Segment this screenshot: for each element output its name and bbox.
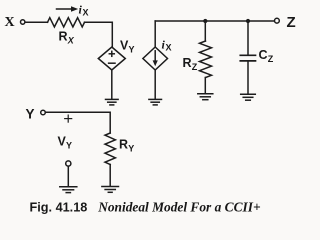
ground (under CZ) bbox=[241, 94, 256, 100]
dependent current source iX (diamond) bbox=[143, 47, 168, 70]
wire top bus to iX source bbox=[154, 21, 156, 47]
label iX (source) bbox=[162, 38, 172, 53]
ground (under VY terminal) bbox=[60, 187, 77, 193]
svg-text:C: C bbox=[259, 48, 268, 62]
svg-text:Z: Z bbox=[268, 54, 274, 64]
label VY (port voltage) bbox=[58, 135, 73, 151]
resistor RX bbox=[48, 18, 85, 27]
wire bus to RZ bbox=[204, 21, 206, 41]
wire bus to CZ bbox=[247, 21, 249, 55]
current label iX (top) bbox=[79, 3, 89, 18]
svg-text:R: R bbox=[183, 56, 192, 70]
junction node at CZ bbox=[246, 19, 250, 23]
ground (under RY) bbox=[102, 187, 119, 193]
wire RY to ground bbox=[109, 165, 111, 187]
plus sign (VY polarity) bbox=[65, 115, 72, 122]
svg-text:X: X bbox=[67, 36, 75, 46]
capacitor CZ bbox=[240, 55, 255, 61]
label CZ bbox=[259, 48, 274, 64]
svg-text:X: X bbox=[83, 8, 89, 18]
svg-text:X: X bbox=[166, 43, 172, 53]
svg-text:Y: Y bbox=[128, 144, 134, 154]
label VY (source) bbox=[120, 39, 135, 55]
svg-text:Z: Z bbox=[192, 62, 198, 72]
dependent source VY (diamond) bbox=[98, 47, 125, 70]
wire VY terminal to ground bbox=[67, 166, 69, 186]
svg-text:R: R bbox=[119, 138, 128, 152]
node X terminal circle bbox=[21, 20, 25, 24]
svg-text:Y: Y bbox=[66, 141, 72, 151]
current arrow iX above RX bbox=[57, 6, 79, 12]
ground (under iX) bbox=[149, 99, 162, 105]
wire top bus (iX to Z) bbox=[155, 20, 274, 22]
label RX bbox=[59, 30, 75, 46]
svg-text:R: R bbox=[59, 30, 68, 44]
wire RZ to ground bbox=[204, 78, 206, 94]
junction node at RZ bbox=[203, 19, 207, 23]
svg-text:Fig. 41.18: Fig. 41.18 bbox=[30, 201, 88, 215]
node VY minus terminal circle bbox=[66, 161, 71, 166]
node Z terminal circle bbox=[275, 18, 280, 23]
svg-text:Nonideal Model For a CCII+: Nonideal Model For a CCII+ bbox=[97, 200, 261, 215]
node Y terminal circle bbox=[41, 110, 46, 115]
label RY bbox=[119, 138, 134, 154]
wire X to RX bbox=[25, 21, 47, 23]
wire CZ to ground bbox=[247, 62, 249, 94]
svg-text:Y: Y bbox=[26, 107, 35, 122]
svg-text:Z: Z bbox=[287, 14, 296, 31]
ground (under VY) bbox=[106, 99, 119, 105]
ground (under RZ) bbox=[198, 94, 213, 100]
label RZ bbox=[183, 56, 198, 72]
wire iX to ground bbox=[154, 70, 156, 99]
svg-text:X: X bbox=[5, 15, 15, 30]
svg-text:Y: Y bbox=[129, 45, 135, 55]
resistor RY bbox=[105, 133, 115, 165]
wire Y to RY corner bbox=[46, 112, 111, 133]
wire VY to ground bbox=[111, 70, 113, 99]
wire RX to VY source corner bbox=[85, 22, 113, 47]
resistor RZ bbox=[200, 41, 212, 78]
